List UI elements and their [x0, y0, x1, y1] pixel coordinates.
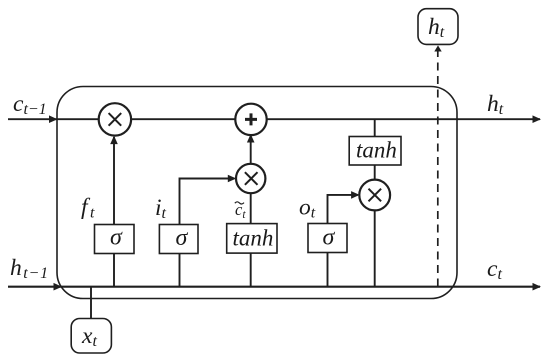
svg-text:σ: σ [323, 225, 336, 251]
svg-text:tanh: tanh [356, 138, 397, 163]
svg-text:tanh: tanh [233, 226, 274, 251]
svg-text:σ: σ [176, 225, 189, 251]
svg-text:σ: σ [110, 225, 123, 251]
